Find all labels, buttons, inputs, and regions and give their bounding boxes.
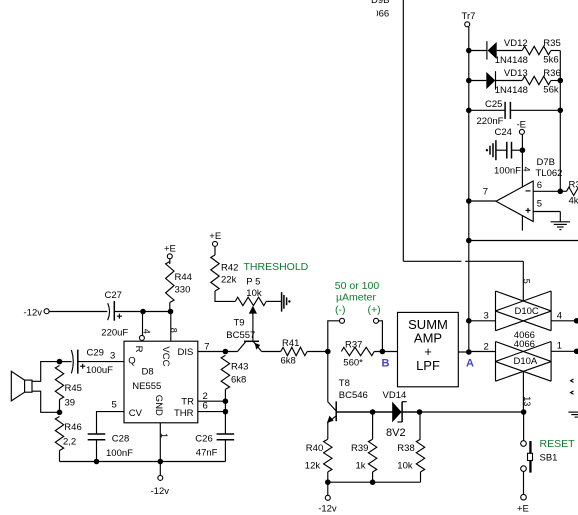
svg-text:THR: THR [174, 408, 194, 419]
node junction C25 row right [558, 108, 564, 114]
resistor R36 56k [522, 68, 561, 96]
svg-text:4: 4 [521, 167, 531, 172]
net label 4066 (cut off at left) [368, 9, 389, 20]
svg-text:100uF: 100uF [86, 365, 113, 376]
svg-text:5: 5 [112, 400, 117, 411]
off-page marker right of P5 [282, 292, 291, 311]
svg-text:3: 3 [110, 350, 115, 361]
svg-text:R39: R39 [351, 443, 368, 454]
wire T8 base rail segment [336, 411, 372, 413]
svg-text:D9B: D9B [371, 0, 389, 6]
svg-text:7: 7 [204, 342, 209, 353]
wire lower rail y=482.2 [328, 481, 421, 483]
op-amp U D7B TL062 (pointing left) [496, 157, 562, 222]
wire D10C input pin 3 [469, 311, 496, 322]
svg-text:BC546: BC546 [339, 390, 368, 401]
resistor R44 330 [166, 259, 192, 312]
node junction R36 right [558, 78, 564, 84]
terminal -E supply [517, 120, 527, 135]
resistor R46 2,2 [55, 417, 81, 462]
resistor R3x 4k (cut at right edge) [560, 180, 578, 207]
wire supply rail to R44 node [143, 311, 171, 313]
svg-text:T8: T8 [339, 378, 350, 389]
node junction pin 6 [558, 189, 564, 195]
terminal +E above R42 [209, 231, 221, 246]
node junction R39 top [370, 409, 376, 415]
wire -E vertical to op-amp pin 4 [521, 134, 523, 186]
wire horizontal D9B to D10C control (with crossing gap) [403, 260, 523, 262]
svg-text:560*: 560* [343, 358, 363, 369]
IC D8 NE555 timer [124, 341, 198, 423]
svg-text:R40: R40 [306, 443, 323, 454]
svg-text:D8: D8 [142, 367, 154, 378]
node junction GND/rail [158, 459, 164, 465]
svg-text:220nF: 220nF [477, 116, 504, 127]
svg-text:D7B: D7B [537, 157, 555, 168]
svg-text:4066: 4066 [368, 9, 389, 20]
svg-text:8: 8 [169, 328, 179, 333]
node junction R39 bottom [370, 479, 376, 485]
svg-text:D10C: D10C [515, 306, 539, 317]
svg-text:R45: R45 [65, 383, 82, 394]
svg-text:-12v: -12v [318, 504, 337, 515]
capacitor C25 220nF [469, 99, 561, 127]
svg-text:C24: C24 [495, 127, 512, 138]
svg-text:T9: T9 [234, 318, 245, 329]
wire D10A input pin 2 [469, 341, 496, 352]
node junction SB1 top [521, 409, 527, 415]
svg-text:2: 2 [484, 341, 489, 352]
wire Tr7 rail vertical (x=468.8) from Tr7 to node A [468, 27, 470, 352]
svg-text:-12v: -12v [151, 486, 170, 497]
resistor R40 12k [305, 439, 332, 482]
svg-text:C29: C29 [87, 347, 104, 358]
node junction A [466, 349, 472, 355]
svg-text:GND: GND [153, 395, 164, 416]
wire NE555 pin 6 THR [198, 401, 226, 412]
svg-text:VD14: VD14 [383, 390, 407, 401]
svg-text:R46: R46 [64, 422, 81, 433]
svg-text:10k: 10k [246, 288, 262, 299]
node junction C25 row left [466, 108, 472, 114]
node junction B (meter +) [380, 349, 386, 355]
node junction y=240.5 [466, 238, 472, 244]
wire NE555 pin 2 TR [198, 391, 226, 402]
wire -12v to C27 [49, 311, 107, 313]
wire VD12 row left [469, 50, 487, 52]
svg-text:C25: C25 [485, 99, 502, 110]
svg-text:Q: Q [128, 356, 135, 367]
block SUMM AMP + LPF [398, 312, 459, 386]
node junction pin2 [223, 398, 229, 404]
svg-text:5: 5 [537, 199, 542, 210]
svg-text:3: 3 [484, 311, 489, 322]
potentiometer P5 10k [235, 276, 281, 341]
svg-text:1k: 1k [356, 461, 366, 472]
wire NE555 pin 5 CV to C28 [97, 400, 125, 434]
node junction D10A output [574, 349, 578, 355]
resistor R45 39 [55, 366, 82, 413]
node junction C28 bottom [94, 459, 100, 465]
wire SB1 upper lead [523, 412, 525, 441]
analog switch D10C 4066 [496, 291, 552, 341]
wire D10C output pin 4 [551, 311, 577, 322]
svg-text:6: 6 [537, 180, 542, 191]
resistor R42 22k [211, 246, 239, 301]
zener diode VD14 8V2 [373, 390, 420, 439]
diode VD13 1N4148 (pointing right, cathode bar right) [486, 68, 528, 96]
svg-text:1N4148: 1N4148 [495, 85, 528, 96]
transistor T8 BC546 (NPN) [327, 378, 368, 423]
svg-text:R35: R35 [543, 38, 560, 49]
svg-text:CV: CV [129, 408, 143, 419]
svg-text:4k: 4k [569, 196, 578, 207]
svg-text:4: 4 [141, 329, 151, 334]
ground at op-amp pin 5 [551, 212, 571, 230]
svg-text:4: 4 [557, 311, 562, 322]
ground at right edge (cut) [568, 412, 578, 417]
terminal +E above R44 [164, 244, 176, 259]
wire horizontal from rail to right edge (y=240.5) [469, 240, 578, 242]
svg-text:220uF: 220uF [101, 327, 128, 338]
svg-text:D10A: D10A [514, 356, 538, 367]
svg-text:C28: C28 [112, 434, 129, 445]
node junction pin4 branch [140, 309, 146, 315]
svg-text:100nF: 100nF [494, 166, 521, 177]
wire NE555 GND pin 1 [159, 423, 169, 475]
wire T8 emitter to R40 [327, 422, 329, 439]
node junction DIS/R43 [223, 349, 229, 355]
wire NE555 pin 3 output [78, 350, 124, 361]
wire continuation arrows at right edge [571, 379, 574, 394]
svg-text:-12v: -12v [24, 307, 43, 318]
svg-text:TL062: TL062 [536, 168, 563, 179]
svg-text:THRESHOLD: THRESHOLD [244, 261, 309, 273]
node junction R45/R46 [57, 410, 63, 416]
terminal +E below SB1 [517, 494, 529, 514]
svg-text:+E: +E [209, 231, 221, 242]
svg-text:12k: 12k [305, 461, 321, 472]
svg-text:7: 7 [483, 187, 488, 198]
svg-text:(+): (+) [368, 304, 381, 316]
terminal meter plus [374, 318, 383, 351]
svg-text:+: + [424, 344, 432, 359]
node junction VD12 row [466, 48, 472, 54]
svg-text:39: 39 [65, 397, 76, 408]
wire bottom rail [60, 461, 226, 463]
wire op-amp pin 5 (non-inverting input) [533, 199, 560, 212]
wire D10A control pin 13 vertical [522, 371, 532, 412]
wire op-amp pin 6 (inverting input) [533, 180, 560, 191]
svg-text:R44: R44 [175, 272, 192, 283]
wire VD13 row left [469, 80, 487, 82]
wire vertical from D9B area down to horizontal wire [402, 0, 404, 261]
svg-text:47nF: 47nF [196, 448, 218, 459]
svg-text:8V2: 8V2 [386, 427, 406, 439]
capacitor C27 220uF (polarized) [101, 290, 143, 339]
svg-text:R43: R43 [231, 362, 248, 373]
wire NE555 pin 8 lead [169, 312, 179, 342]
resistor R41 6k8 [281, 338, 328, 367]
svg-text:R41: R41 [282, 338, 299, 349]
node junction R44/pin8 branch [168, 309, 174, 315]
node junction pin6 THR [223, 409, 229, 415]
wire D10A output pin 1 [551, 341, 577, 352]
svg-text:BC557: BC557 [226, 330, 255, 341]
terminal meter minus [328, 318, 345, 351]
svg-text:2,2: 2,2 [63, 436, 76, 447]
resistor R39 1k [351, 412, 377, 482]
node junction pin3/rail [466, 318, 472, 324]
svg-text:(-): (-) [335, 304, 346, 316]
wire right rail vertical (x=560.3) [559, 51, 561, 192]
wire op-amp pin 8 stub (below) [521, 216, 523, 231]
node junction op-amp output [466, 198, 472, 204]
svg-text:56k: 56k [543, 85, 559, 96]
svg-text:NE555: NE555 [132, 381, 161, 392]
svg-text:R3: R3 [569, 180, 578, 191]
push button SB1 RESET [521, 438, 575, 473]
wire NE555 pin 7 DIS [198, 342, 238, 353]
svg-text:DIS: DIS [178, 347, 194, 358]
capacitor C24 100nF with off-page marker [486, 127, 523, 176]
svg-text:RESET: RESET [540, 438, 576, 450]
svg-text:6k8: 6k8 [281, 356, 296, 367]
svg-text:VCC: VCC [160, 346, 171, 366]
svg-text:100nF: 100nF [106, 448, 133, 459]
svg-text:R42: R42 [221, 262, 238, 273]
wire pin2-pin6-C26 [224, 401, 226, 434]
terminal Tr7 [462, 11, 476, 27]
wire NE555 pin 4 lead with reset bubble [139, 312, 151, 341]
svg-text:B: B [382, 358, 390, 370]
svg-text:6: 6 [203, 401, 208, 412]
svg-text:5: 5 [522, 279, 532, 284]
svg-text:Tr7: Tr7 [462, 11, 476, 22]
node junction C24 right [520, 147, 526, 153]
resistor R38 10k [397, 412, 424, 482]
resistor R35 5k6 [522, 38, 561, 66]
svg-text:50 or 100: 50 or 100 [335, 280, 380, 292]
svg-text:R36: R36 [543, 68, 560, 79]
svg-text:LPF: LPF [416, 358, 440, 373]
svg-text:R: R [133, 346, 144, 353]
capacitor C26 47nF [195, 434, 234, 462]
svg-text:13: 13 [522, 396, 532, 406]
resistor R37 560* [341, 340, 397, 369]
svg-text:5k6: 5k6 [543, 55, 558, 66]
wire speaker top branch [32, 362, 60, 382]
capacitor C28 100nF [88, 434, 133, 462]
svg-text:P 5: P 5 [246, 276, 260, 287]
svg-text:1: 1 [159, 433, 169, 438]
label 50 or 100 uAmeter [335, 280, 381, 316]
wire op-amp output pin 7 [469, 187, 496, 201]
svg-text:A: A [466, 358, 474, 370]
svg-text:R38: R38 [397, 443, 414, 454]
node junction VD13 row left [466, 78, 472, 84]
wire node B down to T8 collector [327, 352, 329, 402]
svg-text:TR: TR [181, 397, 194, 408]
svg-text:µAmeter: µAmeter [336, 292, 376, 304]
terminal -12v left [24, 307, 50, 318]
svg-text:+E: +E [164, 244, 176, 255]
wire T9 emitter to R41 [262, 351, 281, 353]
capacitor C29 100uF (polarized) [60, 347, 114, 376]
analog switch D10A 4066 [496, 339, 552, 381]
node junction R40 bottom [325, 479, 331, 485]
terminal -12v below NE555 [151, 475, 170, 497]
node junction D10C output [574, 318, 578, 324]
svg-text:10k: 10k [397, 461, 413, 472]
svg-text:330: 330 [175, 285, 191, 296]
resistor R43 6k8 [221, 355, 248, 401]
svg-text:4066: 4066 [514, 339, 535, 350]
svg-text:SB1: SB1 [540, 452, 558, 463]
terminal -12v below R40 [318, 482, 337, 514]
svg-text:22k: 22k [221, 275, 237, 286]
transistor T9 BC557 (PNP) [226, 318, 261, 352]
wire SB1 lower lead [523, 471, 525, 494]
wire control rail y=412 from T8 base to SB1 column [336, 411, 523, 413]
speaker LS [11, 371, 32, 401]
svg-text:C27: C27 [105, 290, 122, 301]
node junction R38 top [417, 409, 423, 415]
wire speaker bottom branch [32, 391, 60, 412]
node junction B-left (meter -) [325, 349, 331, 355]
wire SUMM output to node A [458, 351, 469, 353]
svg-text:R37: R37 [345, 340, 362, 351]
svg-text:6k8: 6k8 [231, 375, 246, 386]
svg-text:1N4148: 1N4148 [495, 55, 528, 66]
diode VD12 1N4148 (pointing left, cathode bar left) [487, 38, 528, 66]
svg-text:1: 1 [557, 341, 562, 352]
svg-text:C26: C26 [195, 434, 212, 445]
svg-text:+E: +E [517, 504, 529, 515]
node junction C29/R45 [57, 359, 63, 365]
wire D10C control vertical [522, 261, 524, 301]
